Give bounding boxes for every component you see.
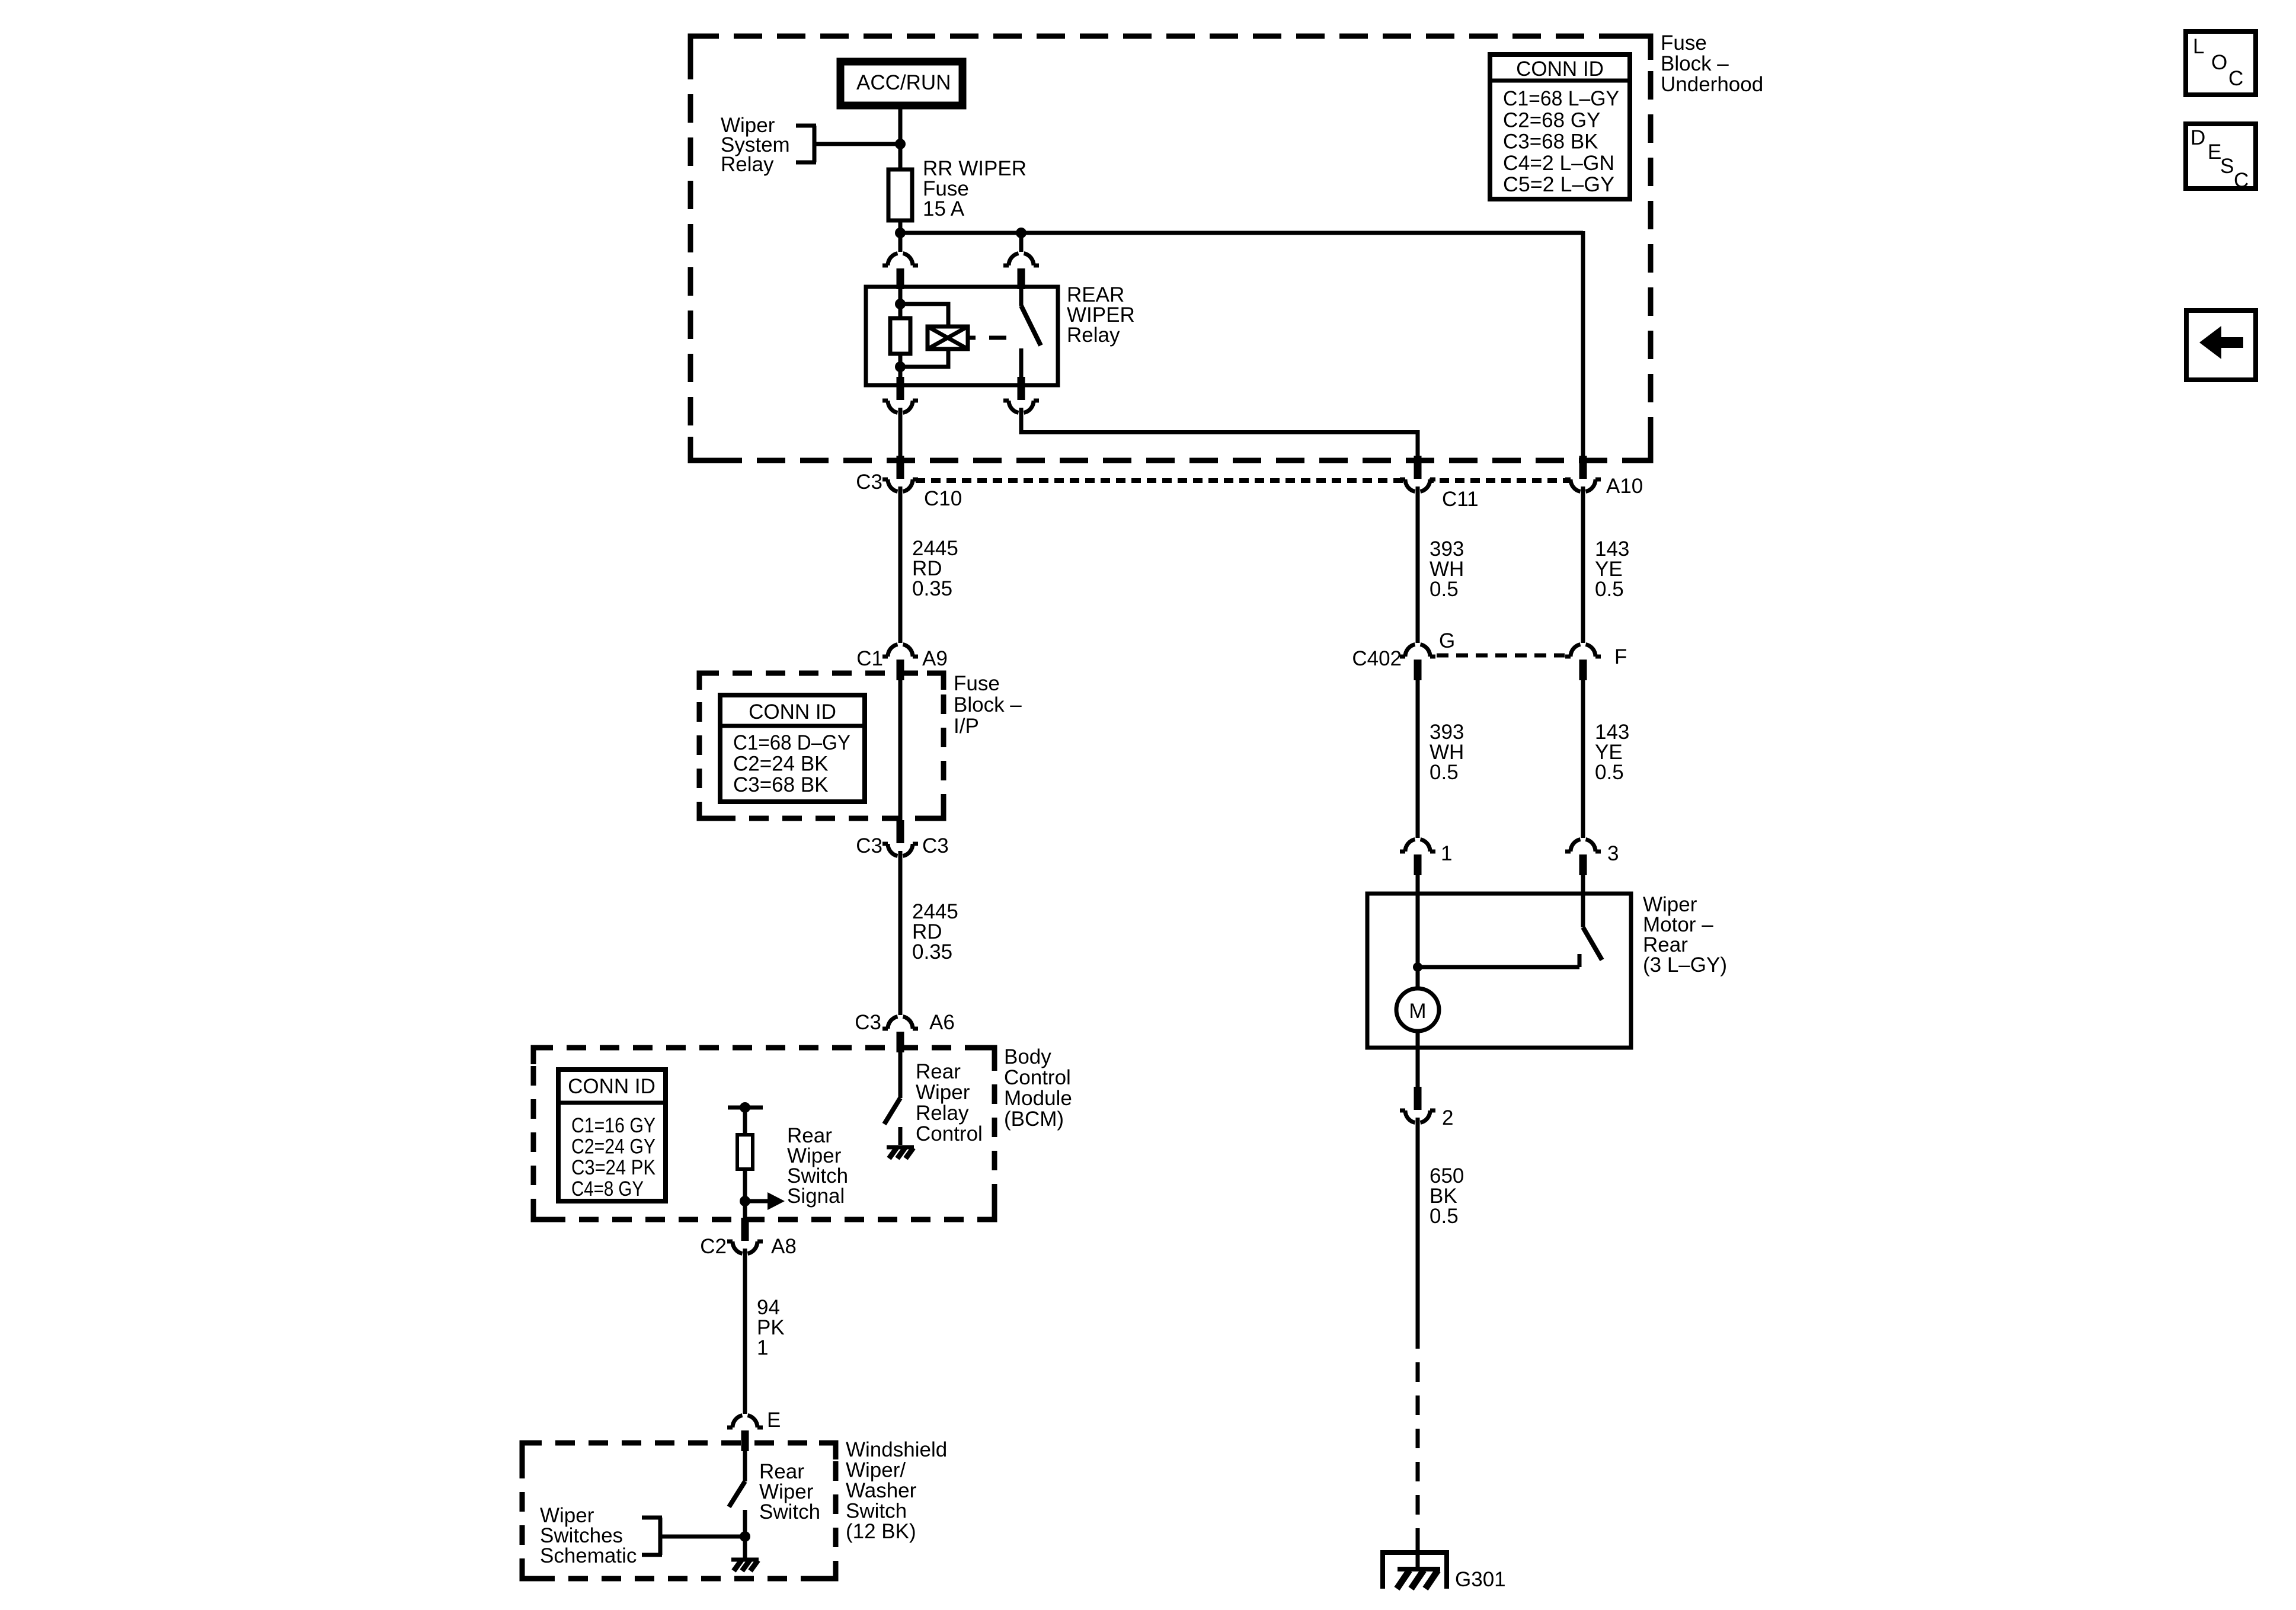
svg-text:Switch: Switch [846,1500,907,1523]
svg-text:F: F [1614,645,1627,668]
loc icon [2186,31,2256,95]
svg-text:E: E [767,1409,781,1432]
svg-text:Module: Module [1004,1087,1072,1110]
svg-text:A6: A6 [929,1011,955,1034]
svg-text:(12 BK): (12 BK) [846,1520,916,1543]
svg-text:C3: C3 [855,1011,881,1034]
svg-text:C2: C2 [700,1235,727,1258]
svg-text:CONN ID: CONN ID [568,1075,655,1098]
connector A10 [1565,456,1643,498]
svg-text:C4=2 L–GN: C4=2 L–GN [1503,152,1614,175]
junction node above fuse [895,139,906,149]
svg-text:Relay: Relay [721,153,774,176]
svg-text:A9: A9 [922,647,948,670]
svg-text:Underhood: Underhood [1661,73,1763,96]
bus wire to A10 drop [900,231,1583,458]
relay switch output connector [1003,377,1039,413]
svg-text:3: 3 [1607,842,1619,865]
svg-text:C1: C1 [856,647,883,670]
svg-text:CONN ID: CONN ID [749,700,836,724]
svg-text:15 A: 15 A [923,197,965,220]
wiper system relay branch [721,114,900,176]
svg-text:Relay: Relay [1067,324,1120,347]
svg-text:C3=68 BK: C3=68 BK [733,773,829,796]
svg-text:Block –: Block – [1661,52,1729,75]
svg-text:C3: C3 [922,834,949,857]
rear wiper switch signal branch [728,1102,848,1218]
switch internal ground [731,1537,759,1571]
wire 94 PK segment [745,1249,785,1414]
svg-text:C2=24 BK: C2=24 BK [733,753,829,776]
svg-text:C3: C3 [856,470,882,494]
svg-text:C3=24 PK: C3=24 PK [571,1156,655,1179]
wiper motor rear box [1367,893,1727,1048]
svg-text:C: C [2228,67,2243,90]
connector E [727,1409,781,1451]
wiper switches schematic branch [540,1504,745,1567]
svg-text:E: E [2208,140,2221,164]
svg-text:ACC/RUN: ACC/RUN [856,71,951,94]
svg-text:G: G [1439,629,1455,652]
wire motor to pin 2 [1416,1031,1420,1088]
svg-text:Schematic: Schematic [540,1544,637,1567]
wire 143 YE segment 2 [1583,680,1629,838]
wire relay switch to C11 [1021,408,1418,458]
svg-text:C5=2 L–GY: C5=2 L–GY [1503,173,1614,196]
back arrow icon [2186,311,2256,380]
svg-text:Rear: Rear [916,1060,961,1083]
svg-text:C402: C402 [1352,647,1402,670]
desc icon [2186,124,2256,192]
wire 143 YE segment 1 [1583,486,1629,643]
svg-text:C3: C3 [856,834,882,857]
svg-text:L: L [2193,35,2204,58]
connector C11 [1400,456,1479,511]
svg-text:1: 1 [1441,842,1452,865]
connector C402 F [1565,645,1627,681]
connector C3 A6 [855,1011,955,1052]
svg-text:C11: C11 [1442,488,1479,511]
relay coil output connector [882,377,918,413]
svg-text:G301: G301 [1455,1568,1506,1591]
connector id table ip [720,695,865,802]
svg-text:(3 L–GY): (3 L–GY) [1643,953,1727,977]
wire fuse to bus [898,220,903,233]
wire relay coil to C3 [898,408,903,458]
svg-text:CONN ID: CONN ID [1516,57,1604,81]
svg-text:Fuse: Fuse [954,672,1000,695]
windshield wiper washer switch enclosure [522,1438,947,1579]
rear wiper switch [729,1451,820,1537]
svg-text:C1=68 L–GY: C1=68 L–GY [1503,87,1619,110]
connector C402 dashed link [1437,654,1565,658]
fuse block ip enclosure [699,672,1022,818]
rear wiper relay control switch [884,1051,983,1145]
connector pin 1 [1400,840,1452,876]
svg-text:O: O [2211,51,2227,74]
dashed ground wire [1416,1329,1420,1570]
relay switch [1021,288,1041,385]
svg-text:0.5: 0.5 [1430,761,1459,784]
svg-text:S: S [2220,155,2234,178]
svg-text:Switch: Switch [759,1500,820,1523]
relay coil resistor [890,318,910,354]
svg-text:A8: A8 [771,1235,797,1258]
wire bus to relay switch connector [1019,233,1024,252]
connector C2 A8 [700,1218,797,1258]
svg-text:C2=24 GY: C2=24 GY [571,1135,655,1158]
svg-text:0.35: 0.35 [912,577,952,600]
switch junction node [740,1531,750,1542]
svg-text:2: 2 [1442,1106,1453,1129]
relay solenoid element [928,327,968,349]
wire bus to relay coil connector [898,233,903,252]
wire 650 BK segment [1418,1118,1464,1329]
connector id table bcm [558,1070,666,1201]
relay armature dashed link [968,336,1006,340]
power feed ACC/RUN [840,62,962,105]
motor M [1396,988,1439,1031]
svg-text:Wiper: Wiper [916,1081,970,1104]
svg-text:Block –: Block – [954,693,1022,716]
svg-text:M: M [1409,1000,1426,1023]
fuse block underhood enclosure [690,31,1763,460]
svg-text:D: D [2191,126,2205,149]
motor park switch [1418,875,1602,967]
svg-text:C4=8 GY: C4=8 GY [571,1177,644,1201]
svg-text:Wiper/: Wiper/ [846,1459,906,1482]
connector C3 C10 [856,456,962,510]
svg-text:Windshield: Windshield [846,1438,947,1461]
wire inside fuse block ip [898,680,903,822]
svg-text:0.5: 0.5 [1595,578,1624,601]
svg-text:0.5: 0.5 [1430,578,1459,601]
connector C3 C3 [856,820,949,857]
svg-text:1: 1 [757,1336,768,1359]
inline connector row dotted line [916,478,1569,483]
ground G301 [1383,1553,1506,1591]
svg-text:C10: C10 [924,487,962,510]
wire 393 WH segment 2 [1418,680,1464,838]
connector pin 3 [1565,840,1619,876]
svg-text:Signal: Signal [787,1185,845,1208]
junction relay switch branch [1016,228,1027,238]
svg-text:Body: Body [1004,1045,1051,1068]
svg-text:0.35: 0.35 [912,940,952,964]
wire 2445 RD segment 1 [900,486,958,643]
fuse RR WIPER 15 A [888,157,1027,220]
wire 393 WH segment 1 [1418,486,1464,643]
wire ACC/RUN to fuse [898,105,903,169]
svg-text:C3=68 BK: C3=68 BK [1503,130,1598,153]
svg-text:0.5: 0.5 [1595,761,1624,784]
svg-text:C: C [2234,169,2249,192]
svg-text:Washer: Washer [846,1479,917,1502]
svg-text:C1=16 GY: C1=16 GY [571,1114,655,1137]
svg-text:C1=68 D–GY: C1=68 D–GY [733,731,850,754]
svg-text:Control: Control [916,1122,983,1145]
body control module enclosure [533,1045,1072,1219]
bcm internal ground [887,1147,914,1158]
connector pin 2 [1400,1087,1453,1129]
svg-text:0.5: 0.5 [1430,1205,1459,1228]
svg-text:Control: Control [1004,1066,1071,1089]
relay coil wire and junctions [895,288,948,385]
svg-text:Fuse: Fuse [1661,31,1707,55]
svg-text:Relay: Relay [916,1102,969,1125]
svg-text:I/P: I/P [954,715,979,738]
svg-text:C2=68 GY: C2=68 GY [1503,108,1600,132]
connector C402 G [1352,629,1455,680]
svg-text:A10: A10 [1606,475,1643,498]
connector id table underhood [1490,55,1630,199]
wire 2445 RD segment 2 [900,851,958,1015]
relay coil pin connector [882,254,918,290]
svg-text:(BCM): (BCM) [1004,1108,1064,1131]
connector C1 A9 [856,645,948,681]
junction below fuse [895,228,906,238]
relay switch pin connector [1003,254,1039,290]
motor feed wire [1413,875,1422,988]
rear wiper relay box [866,283,1135,385]
